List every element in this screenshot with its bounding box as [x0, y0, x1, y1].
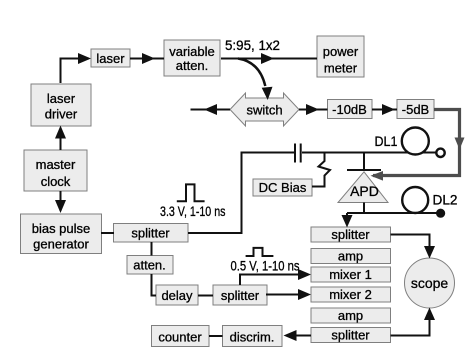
label 5:95, 1x2	[225, 37, 280, 53]
svg-text:meter: meter	[324, 61, 358, 76]
curved tap wire to switch	[238, 59, 273, 101]
box laser driver	[31, 84, 91, 126]
switch (double arrow shape)	[230, 93, 299, 126]
box splitter (stack bottom)	[311, 328, 391, 343]
box power meter	[317, 36, 364, 77]
svg-text:atten.: atten.	[133, 258, 166, 273]
wire splitter to mixer 2	[266, 289, 311, 300]
svg-text:splitter: splitter	[131, 226, 170, 241]
svg-text:5:95, 1x2: 5:95, 1x2	[225, 37, 280, 53]
DL2 label	[433, 192, 458, 208]
wire delay to splitter	[198, 295, 213, 297]
wire master clock to laser driver	[55, 126, 66, 151]
box splitter (bias)	[114, 224, 189, 243]
svg-text:delay: delay	[161, 288, 193, 303]
wire splitter to atten.	[151, 242, 153, 256]
wire capacitor to DL1 termination	[302, 152, 438, 154]
box master clock	[24, 150, 87, 191]
svg-text:counter: counter	[158, 330, 202, 345]
wire master clock to bias pulse generator	[55, 191, 66, 213]
box mixer 1	[311, 267, 391, 282]
svg-text:splitter: splitter	[331, 328, 370, 343]
gray wire -5dB to APD	[371, 110, 465, 181]
DL2 fiber loop	[402, 187, 428, 213]
label 0.5 V, 1-10 ns	[231, 258, 300, 274]
label 3.3 V, 1-10 ns	[160, 203, 226, 219]
box bias pulse generator	[21, 214, 102, 254]
svg-text:master: master	[36, 157, 76, 172]
svg-text:power: power	[323, 44, 359, 59]
wire atten. to delay	[152, 274, 157, 296]
svg-text:laser: laser	[96, 51, 125, 66]
wire junction down to APD	[363, 153, 365, 170]
zigzag to DC Bias	[312, 153, 330, 187]
box discrim.	[223, 326, 283, 347]
svg-text:APD: APD	[350, 183, 379, 199]
DL2 filled terminator	[436, 209, 445, 218]
box splitter (stack top)	[311, 227, 391, 242]
wire APD output	[342, 203, 438, 228]
svg-text:clock: clock	[41, 174, 71, 189]
DL1 open terminator	[436, 149, 444, 157]
svg-text:-5dB: -5dB	[402, 102, 429, 117]
svg-text:3.3 V, 1-10 ns: 3.3 V, 1-10 ns	[160, 203, 226, 219]
box amp (stack lower)	[311, 308, 391, 323]
wire splitter to capacitor	[188, 153, 294, 234]
DL1 label	[375, 133, 398, 149]
svg-text:-10dB: -10dB	[332, 102, 367, 117]
svg-text:splitter: splitter	[331, 227, 370, 242]
wire variable atten. to power meter	[221, 53, 317, 64]
svg-text:laser: laser	[47, 91, 76, 106]
box -10dB	[328, 100, 373, 119]
svg-text:0.5 V, 1-10 ns: 0.5 V, 1-10 ns	[231, 258, 300, 274]
wire splitter to mixer 1	[240, 269, 311, 285]
svg-text:atten.: atten.	[176, 58, 209, 73]
svg-text:generator: generator	[33, 237, 89, 252]
svg-text:switch: switch	[246, 103, 282, 118]
APD triangle	[338, 172, 388, 203]
wire bias pulse generator to splitter	[101, 232, 114, 234]
svg-text:splitter: splitter	[221, 288, 260, 303]
wire stack splitter to discrim.	[284, 330, 312, 341]
svg-text:DL1: DL1	[375, 133, 398, 149]
wire stack splitter to scope bottom	[391, 308, 436, 336]
svg-text:driver: driver	[45, 107, 78, 122]
svg-text:DC Bias: DC Bias	[259, 180, 307, 195]
wire stack splitter to scope top	[391, 235, 436, 259]
box variable atten.	[164, 40, 220, 76]
svg-text:amp: amp	[338, 249, 363, 264]
box counter	[152, 326, 210, 347]
box delay	[156, 285, 198, 305]
svg-text:scope: scope	[411, 275, 449, 291]
scope circle	[405, 258, 455, 308]
box amp (stack upper)	[311, 249, 391, 264]
wire switch to -10dB	[299, 104, 328, 115]
box mixer 2	[311, 287, 391, 302]
svg-text:variable: variable	[169, 44, 215, 59]
wire laser to variable atten.	[130, 53, 164, 64]
pulse symbol 0.5 V	[246, 248, 274, 256]
svg-text:DL2: DL2	[433, 192, 458, 208]
pulse symbol 3.3 V	[177, 184, 205, 201]
wire switch left output	[191, 104, 231, 115]
svg-text:mixer 2: mixer 2	[329, 287, 372, 302]
APD cathode bar	[347, 169, 381, 171]
DL1 fiber loop	[402, 128, 429, 155]
svg-text:bias pulse: bias pulse	[32, 221, 91, 236]
box atten.	[127, 256, 173, 275]
svg-text:amp: amp	[338, 308, 363, 323]
capacitor	[295, 144, 301, 163]
svg-text:mixer 1: mixer 1	[329, 267, 372, 282]
box splitter (trigger)	[213, 285, 267, 305]
svg-text:discrim.: discrim.	[230, 330, 275, 345]
box -5dB	[397, 100, 434, 119]
wire laser driver to laser	[61, 53, 92, 83]
box DC Bias	[253, 179, 312, 196]
box laser	[91, 49, 130, 67]
wire -10dB to -5dB	[372, 104, 397, 115]
wire discrim. to counter	[209, 335, 223, 337]
